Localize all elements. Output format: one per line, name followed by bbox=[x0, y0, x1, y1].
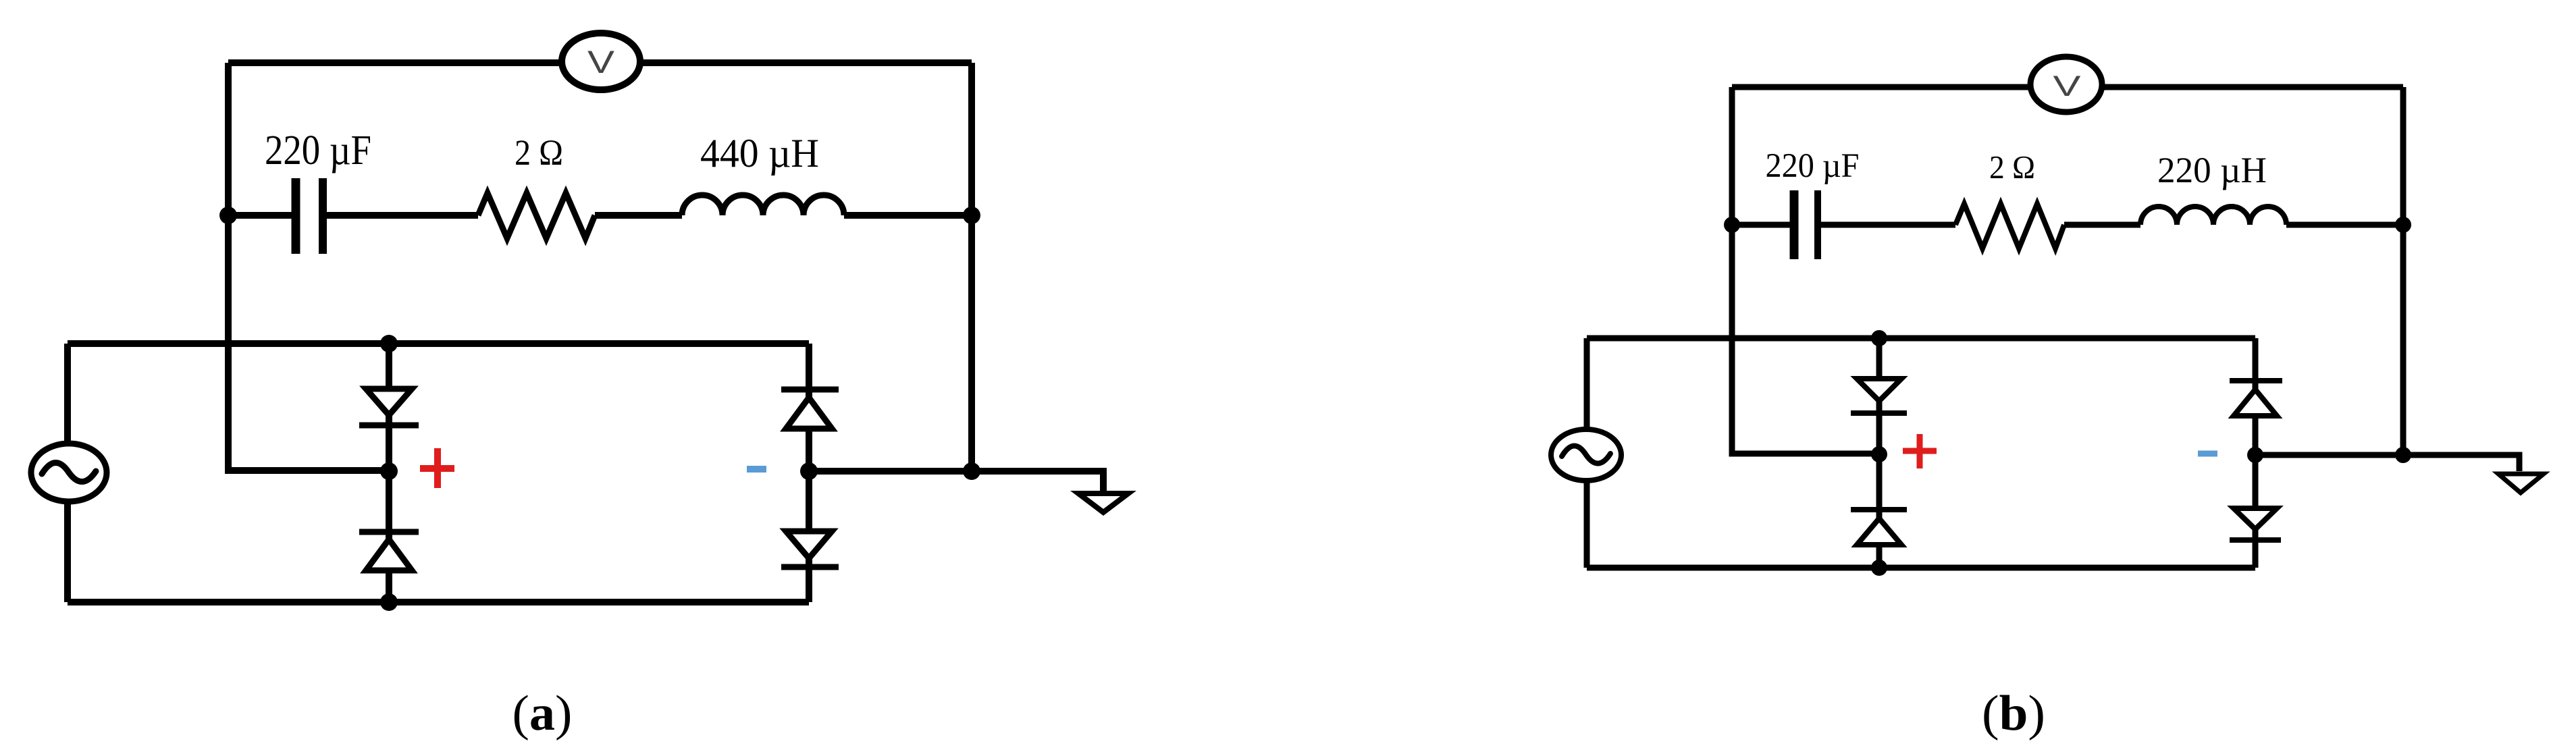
svg-text:(b): (b) bbox=[1982, 686, 2045, 741]
svg-text:220 µF: 220 µF bbox=[1766, 147, 1860, 185]
svg-text:(a): (a) bbox=[512, 686, 573, 741]
svg-text:V: V bbox=[587, 44, 615, 80]
svg-text:440 µH: 440 µH bbox=[700, 131, 819, 176]
svg-text:2 Ω: 2 Ω bbox=[515, 132, 563, 173]
svg-text:2 Ω: 2 Ω bbox=[1989, 149, 2035, 186]
svg-text:220 µH: 220 µH bbox=[2157, 150, 2267, 190]
svg-text:220 µF: 220 µF bbox=[265, 128, 371, 173]
svg-text:V: V bbox=[2053, 70, 2081, 103]
